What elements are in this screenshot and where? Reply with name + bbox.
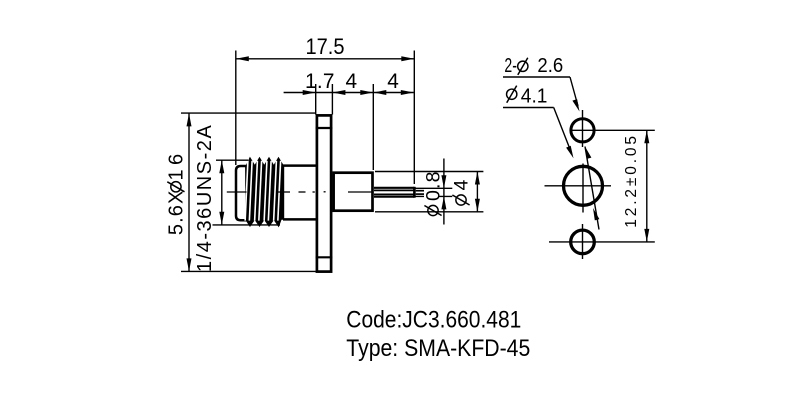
- pin tip line 1: [416, 190, 425, 192]
- ext line barrel right: [372, 84, 374, 170]
- svg-text:Type: SMA-KFD-45: Type: SMA-KFD-45: [346, 336, 530, 362]
- leader to top hole: [570, 77, 578, 106]
- label underline 2-dia2.6: [503, 76, 570, 78]
- thread block: [246, 158, 284, 225]
- dim text dia 4 rotated: [451, 180, 473, 206]
- front barrel bottom edge: [283, 218, 317, 221]
- hole circle bottom: [571, 230, 595, 254]
- svg-text:1.7: 1.7: [305, 70, 335, 93]
- pin line 3: [374, 193, 414, 195]
- flange: [317, 115, 331, 271]
- hole circle top: [571, 119, 594, 142]
- arrow 12.2 bottom: [644, 229, 649, 242]
- arrow 4b left: [373, 90, 386, 95]
- arrow dia4 bottom: [475, 199, 480, 212]
- svg-text:4: 4: [346, 70, 358, 93]
- pin line 2: [374, 189, 414, 191]
- dim text 1/4-36UNS-2A rotated: [194, 125, 216, 272]
- pin tip line 2: [416, 193, 425, 195]
- DIMENSIONS MAIN VIEW: [181, 51, 483, 272]
- knockout behind dia0.8 zero glyph: [424, 189, 439, 200]
- arrow 17.5 left: [236, 56, 249, 61]
- ext line dia16 bottom: [181, 270, 316, 272]
- front barrel top edge: [283, 164, 317, 167]
- svg-text:5.6X: 5.6X: [166, 191, 188, 236]
- svg-text:2-: 2-: [504, 54, 517, 77]
- ext line pin bottom: [413, 195, 452, 197]
- ext line thread bottom: [213, 224, 281, 226]
- ext line 17.5 right / pin step: [413, 51, 415, 185]
- arrow thread top: [219, 160, 224, 173]
- flange inner line top: [316, 127, 333, 129]
- ext line thread top: [216, 159, 248, 161]
- label dia4.1: [507, 86, 517, 103]
- pin line 4: [374, 196, 414, 198]
- arrow 1.7 left: [303, 90, 316, 95]
- ext line dia4 bottom: [375, 211, 483, 213]
- diagonal leader line through middle hole: [585, 147, 599, 230]
- dim line 17.5: [236, 58, 414, 60]
- svg-text:17.5: 17.5: [306, 34, 345, 59]
- svg-text:0.8: 0.8: [423, 172, 445, 202]
- arrow dia0.8 top: [441, 175, 446, 188]
- pin line 1: [374, 187, 414, 189]
- arrow dia16 top: [187, 113, 192, 126]
- arrow thread bottom: [219, 212, 224, 225]
- front cap: [236, 166, 251, 220]
- hole circle middle: [564, 166, 603, 205]
- ext line 17.5 left: [235, 51, 237, 166]
- arrow dia0.8 bottom: [441, 196, 446, 209]
- arrowheads main view: [187, 56, 480, 271]
- pin step: [413, 187, 416, 198]
- dim line dia0.8: [443, 159, 445, 225]
- ext line dia16 top: [181, 112, 316, 114]
- arrow 4b right: [401, 90, 414, 95]
- arrow 17.5 right: [401, 56, 414, 61]
- dim line row2: [284, 92, 414, 94]
- arrow dia16 bottom: [187, 258, 192, 271]
- dim line thread: [221, 160, 223, 225]
- svg-text:1/4-36UNS-2A: 1/4-36UNS-2A: [194, 125, 216, 272]
- svg-text:4.1: 4.1: [521, 84, 548, 107]
- dim line dia16: [188, 113, 190, 271]
- dim text 5.6X dia 16 rotated: [166, 154, 188, 235]
- svg-text:4: 4: [451, 180, 473, 191]
- svg-text:2.6: 2.6: [537, 54, 563, 77]
- arrow 4a right: [360, 90, 373, 95]
- svg-text:Code:JC3.660.481: Code:JC3.660.481: [346, 308, 521, 334]
- arrowhead up at top circle: [585, 147, 591, 159]
- svg-text:4: 4: [387, 70, 399, 93]
- circle centerlines: [545, 110, 655, 259]
- label underline dia4.1: [503, 107, 554, 109]
- svg-text:12.2±0.05: 12.2±0.05: [623, 136, 640, 228]
- dim text dia 0.8 rotated: [423, 172, 445, 216]
- arrow 1.7 right / 4a left: [332, 90, 345, 95]
- dim 12.2: [646, 130, 648, 242]
- dim line dia4: [476, 172, 478, 212]
- rear barrel: [334, 173, 373, 211]
- arrowhead up-left at middle hole edge: [593, 208, 599, 220]
- ext line pin top: [413, 187, 452, 189]
- centerline: [227, 191, 373, 193]
- arrow dia4 top: [475, 172, 480, 185]
- dim text 12.2 rotated: [623, 136, 640, 228]
- thread white hatch slits: [245, 161, 280, 221]
- arrow 12.2 top: [644, 130, 649, 143]
- flange inner line bottom: [316, 256, 333, 258]
- ext line flange left: [315, 84, 317, 115]
- ext line flange right: [331, 84, 333, 115]
- leader to middle hole: [554, 108, 572, 154]
- ext line dia4 top: [375, 171, 483, 173]
